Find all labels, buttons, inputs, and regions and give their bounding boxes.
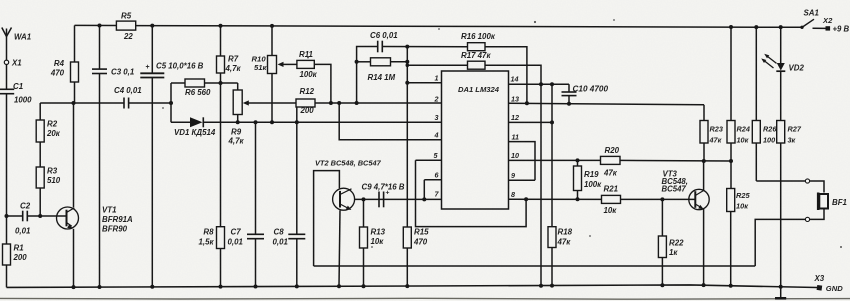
- VT2 top wire and loop to lower rail: [314, 171, 340, 266]
- pin 12: [509, 121, 553, 123]
- wire R1 to ground rail: [6, 265, 8, 287]
- scan noise overlay: [0, 0, 1, 1]
- node C4/R6/VD1 junction: [169, 101, 173, 105]
- pin 9: [509, 179, 536, 181]
- resistor R18 47к: [551, 122, 553, 226]
- transistor VT1 BFR91A: [57, 207, 79, 229]
- potentiometer R10 51к: [270, 24, 274, 28]
- resistor R7 4,7к: [219, 24, 223, 28]
- antenna WA1: [2, 28, 7, 37]
- wire R3 to base node: [39, 188, 41, 216]
- resistor R21 10к: [602, 195, 621, 203]
- resistor R2 20к: [39, 103, 41, 120]
- resistor R27 3к: [780, 71, 782, 120]
- pin 8 / R21 line: [509, 198, 602, 200]
- LED VD2: [779, 25, 783, 29]
- wire C1 down to C2 node: [6, 94, 8, 216]
- wire VT1 collector up: [73, 103, 75, 207]
- resistor R6 560: [171, 82, 185, 84]
- diode VD1 КД514: [171, 121, 190, 123]
- wire R7 down through R6 line: [220, 73, 222, 227]
- node R13 top: [362, 197, 366, 201]
- capacitor C9 4,7*16 В: [378, 192, 380, 208]
- sounder BF1: [817, 193, 820, 211]
- pin 5-8 under-box link: [416, 160, 527, 226]
- node C6/R16: [405, 45, 409, 49]
- terminal X2 +9V: [813, 27, 826, 29]
- resistor R13 10к: [363, 199, 365, 227]
- pin 7 / C9 line: [355, 198, 442, 200]
- potentiometer R9 4,7к: [237, 83, 239, 90]
- resistor R15 470: [406, 226, 408, 228]
- wire R16 right to pin13: [485, 47, 527, 103]
- feedback vertical (pin1/R15 column): [406, 47, 408, 227]
- pin 1: [407, 82, 441, 84]
- transistor VT3 BC548,BC547: [689, 189, 709, 209]
- pin 10 / R20 line: [509, 159, 601, 161]
- resistor R26 100: [754, 25, 758, 29]
- resistor R3 510: [36, 167, 44, 188]
- resistor R22 1к: [660, 197, 664, 201]
- capacitor C2 0,01: [7, 215, 23, 217]
- resistor R24 10к: [729, 25, 733, 29]
- R10 wiper arrow from R11: [281, 63, 297, 65]
- resistor R19 100к: [576, 158, 580, 162]
- capacitor C7 0,01: [254, 120, 258, 124]
- BF1 bottom wire: [755, 219, 805, 266]
- pin 11: [509, 142, 536, 181]
- node C2/R1 junction: [5, 214, 9, 218]
- pin 5: [416, 159, 442, 161]
- wire pin4 branch: [337, 101, 341, 105]
- pin 6: [424, 179, 441, 181]
- lower rail wire: [314, 265, 756, 267]
- R9 wiper arrow from R12: [247, 102, 296, 104]
- capacitor C10 4700: [568, 84, 570, 92]
- resistor R12 200: [296, 99, 315, 107]
- wire R17 right down to lower rail: [485, 65, 541, 286]
- capacitor C6 0,01: [357, 47, 378, 104]
- terminal X3 GND: [817, 285, 823, 291]
- VT2 emitter to ground rail: [339, 210, 340, 286]
- wire C4 line (R2 top to C4): [40, 102, 124, 104]
- resistor R14 1М: [357, 61, 371, 63]
- capacitor C5 10,0*16 В (electrolytic): [150, 24, 154, 28]
- resistor R23 47к: [703, 105, 705, 121]
- connector X1: [4, 60, 8, 64]
- resistor R4 470: [74, 25, 76, 62]
- wire top rail left of R5: [75, 24, 117, 26]
- resistor R17 47к: [407, 64, 467, 66]
- resistor R5 22 (in top rail): [116, 21, 135, 30]
- transistor VT2 BC548,BC547: [333, 188, 355, 210]
- wire R11 right down to R12 line: [314, 64, 331, 103]
- pin 14: [509, 83, 570, 85]
- resistor R8 1,5к: [217, 227, 225, 249]
- switch SA1: [800, 26, 803, 29]
- resistor R11 100к: [297, 60, 314, 68]
- resistor R1 200: [6, 216, 8, 244]
- node R4/R2/VT1: [72, 101, 76, 105]
- wire VT1 emitter to ground rail: [73, 229, 75, 287]
- wire X1 to C1: [6, 65, 8, 90]
- capacitor C8 0,01: [296, 107, 298, 234]
- wire top rail R5 to SA1: [136, 26, 802, 28]
- page bottom edge: [0, 297, 850, 300]
- capacitor C4 0,01: [123, 98, 125, 109]
- wire R2 to R3: [39, 142, 41, 167]
- capacitor C3 0,1: [98, 24, 102, 28]
- resistor R20 47к: [601, 156, 621, 164]
- resistor R16 100к: [468, 43, 486, 51]
- resistor R25 10к: [727, 189, 735, 212]
- pin 13 / C10 line: [509, 103, 705, 105]
- BF1 top wire: [756, 180, 805, 182]
- wire junction vertical: [170, 83, 172, 122]
- pin14 drop to R18 column: [551, 84, 553, 122]
- wire R12 to DA1 pin 2: [315, 102, 442, 104]
- ground symbol: [780, 287, 782, 298]
- VT3 emitter down: [703, 209, 705, 285]
- op-amp U1 DA1 LM324: [442, 71, 509, 209]
- ground rail: [7, 285, 818, 288]
- VT3 collector up: [703, 161, 705, 190]
- capacitor C1 1000: [0, 88, 14, 90]
